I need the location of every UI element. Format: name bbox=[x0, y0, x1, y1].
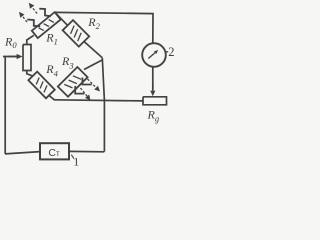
svg-text:R1: R1 bbox=[45, 30, 58, 46]
wire R3 top to right node bbox=[84, 60, 103, 70]
slider arrow onto R0 bbox=[8, 54, 23, 59]
resistor R1 (bridge arm box with slashes) bbox=[32, 12, 61, 38]
resistor R2 (bridge arm box with slashes) bbox=[63, 20, 90, 46]
plug steps at R1 lower bbox=[27, 20, 40, 27]
wire node A to R2 bbox=[56, 13, 69, 26]
wire top: node A to top-right corner down to galvanometer bbox=[55, 12, 153, 43]
svg-text:R4: R4 bbox=[45, 62, 58, 78]
wire R0 bottom to R4 top bbox=[27, 71, 33, 77]
wire bottom-left to source box bbox=[5, 152, 40, 154]
wire R2 bottom to right node bbox=[84, 42, 102, 58]
svg-text:Ст: Ст bbox=[48, 147, 60, 159]
adjustment arrow 2 at R1 (dashed up-left) bbox=[29, 3, 37, 14]
wire source box to right vertical bbox=[69, 150, 104, 152]
svg-text:Rg: Rg bbox=[147, 108, 160, 124]
resistor Rg (plain box) bbox=[143, 97, 167, 105]
resistor R0 (plain box) bbox=[23, 45, 31, 71]
source box Ct (element 1) bbox=[40, 143, 69, 159]
adjustment arrow 1 at R3 (dashed down-right) bbox=[88, 79, 101, 92]
wire R1 bottom to R0 top bbox=[27, 35, 34, 44]
svg-text:R2: R2 bbox=[87, 15, 100, 31]
slider arrow onto Rg bbox=[150, 84, 155, 96]
galvanometer 2 (circle) bbox=[142, 43, 166, 67]
svg-text:2: 2 bbox=[168, 45, 174, 59]
svg-text:1: 1 bbox=[73, 154, 79, 168]
wire right node down to bottom loop bbox=[102, 58, 104, 152]
plug steps at R1 upper bbox=[39, 9, 51, 17]
plug steps at R3 upper bbox=[82, 78, 91, 85]
svg-text:R3: R3 bbox=[61, 54, 74, 70]
adjustment arrow 2 at R3 (dashed down-right) bbox=[81, 88, 91, 101]
wire bridge bottom node to Rg (horizontal) bbox=[54, 100, 144, 101]
svg-text:R0: R0 bbox=[4, 35, 17, 50]
leader tick for label 1 bbox=[71, 155, 74, 159]
label leader dash for 2 bbox=[165, 51, 168, 53]
wire left vertical with slider tap bbox=[3, 57, 17, 154]
galvanometer needle bbox=[148, 50, 158, 59]
resistor R4 (bridge arm box with slashes) bbox=[28, 72, 54, 99]
plug steps at R3 lower bbox=[75, 86, 84, 94]
wire galvanometer to Rg slider bbox=[152, 67, 154, 90]
resistor R3 (bridge arm box with slashes) bbox=[58, 67, 88, 97]
adjustment arrow 1 at R1 (dashed up-left) bbox=[19, 12, 27, 22]
wire R4 bottom to bottom node bbox=[49, 96, 55, 100]
